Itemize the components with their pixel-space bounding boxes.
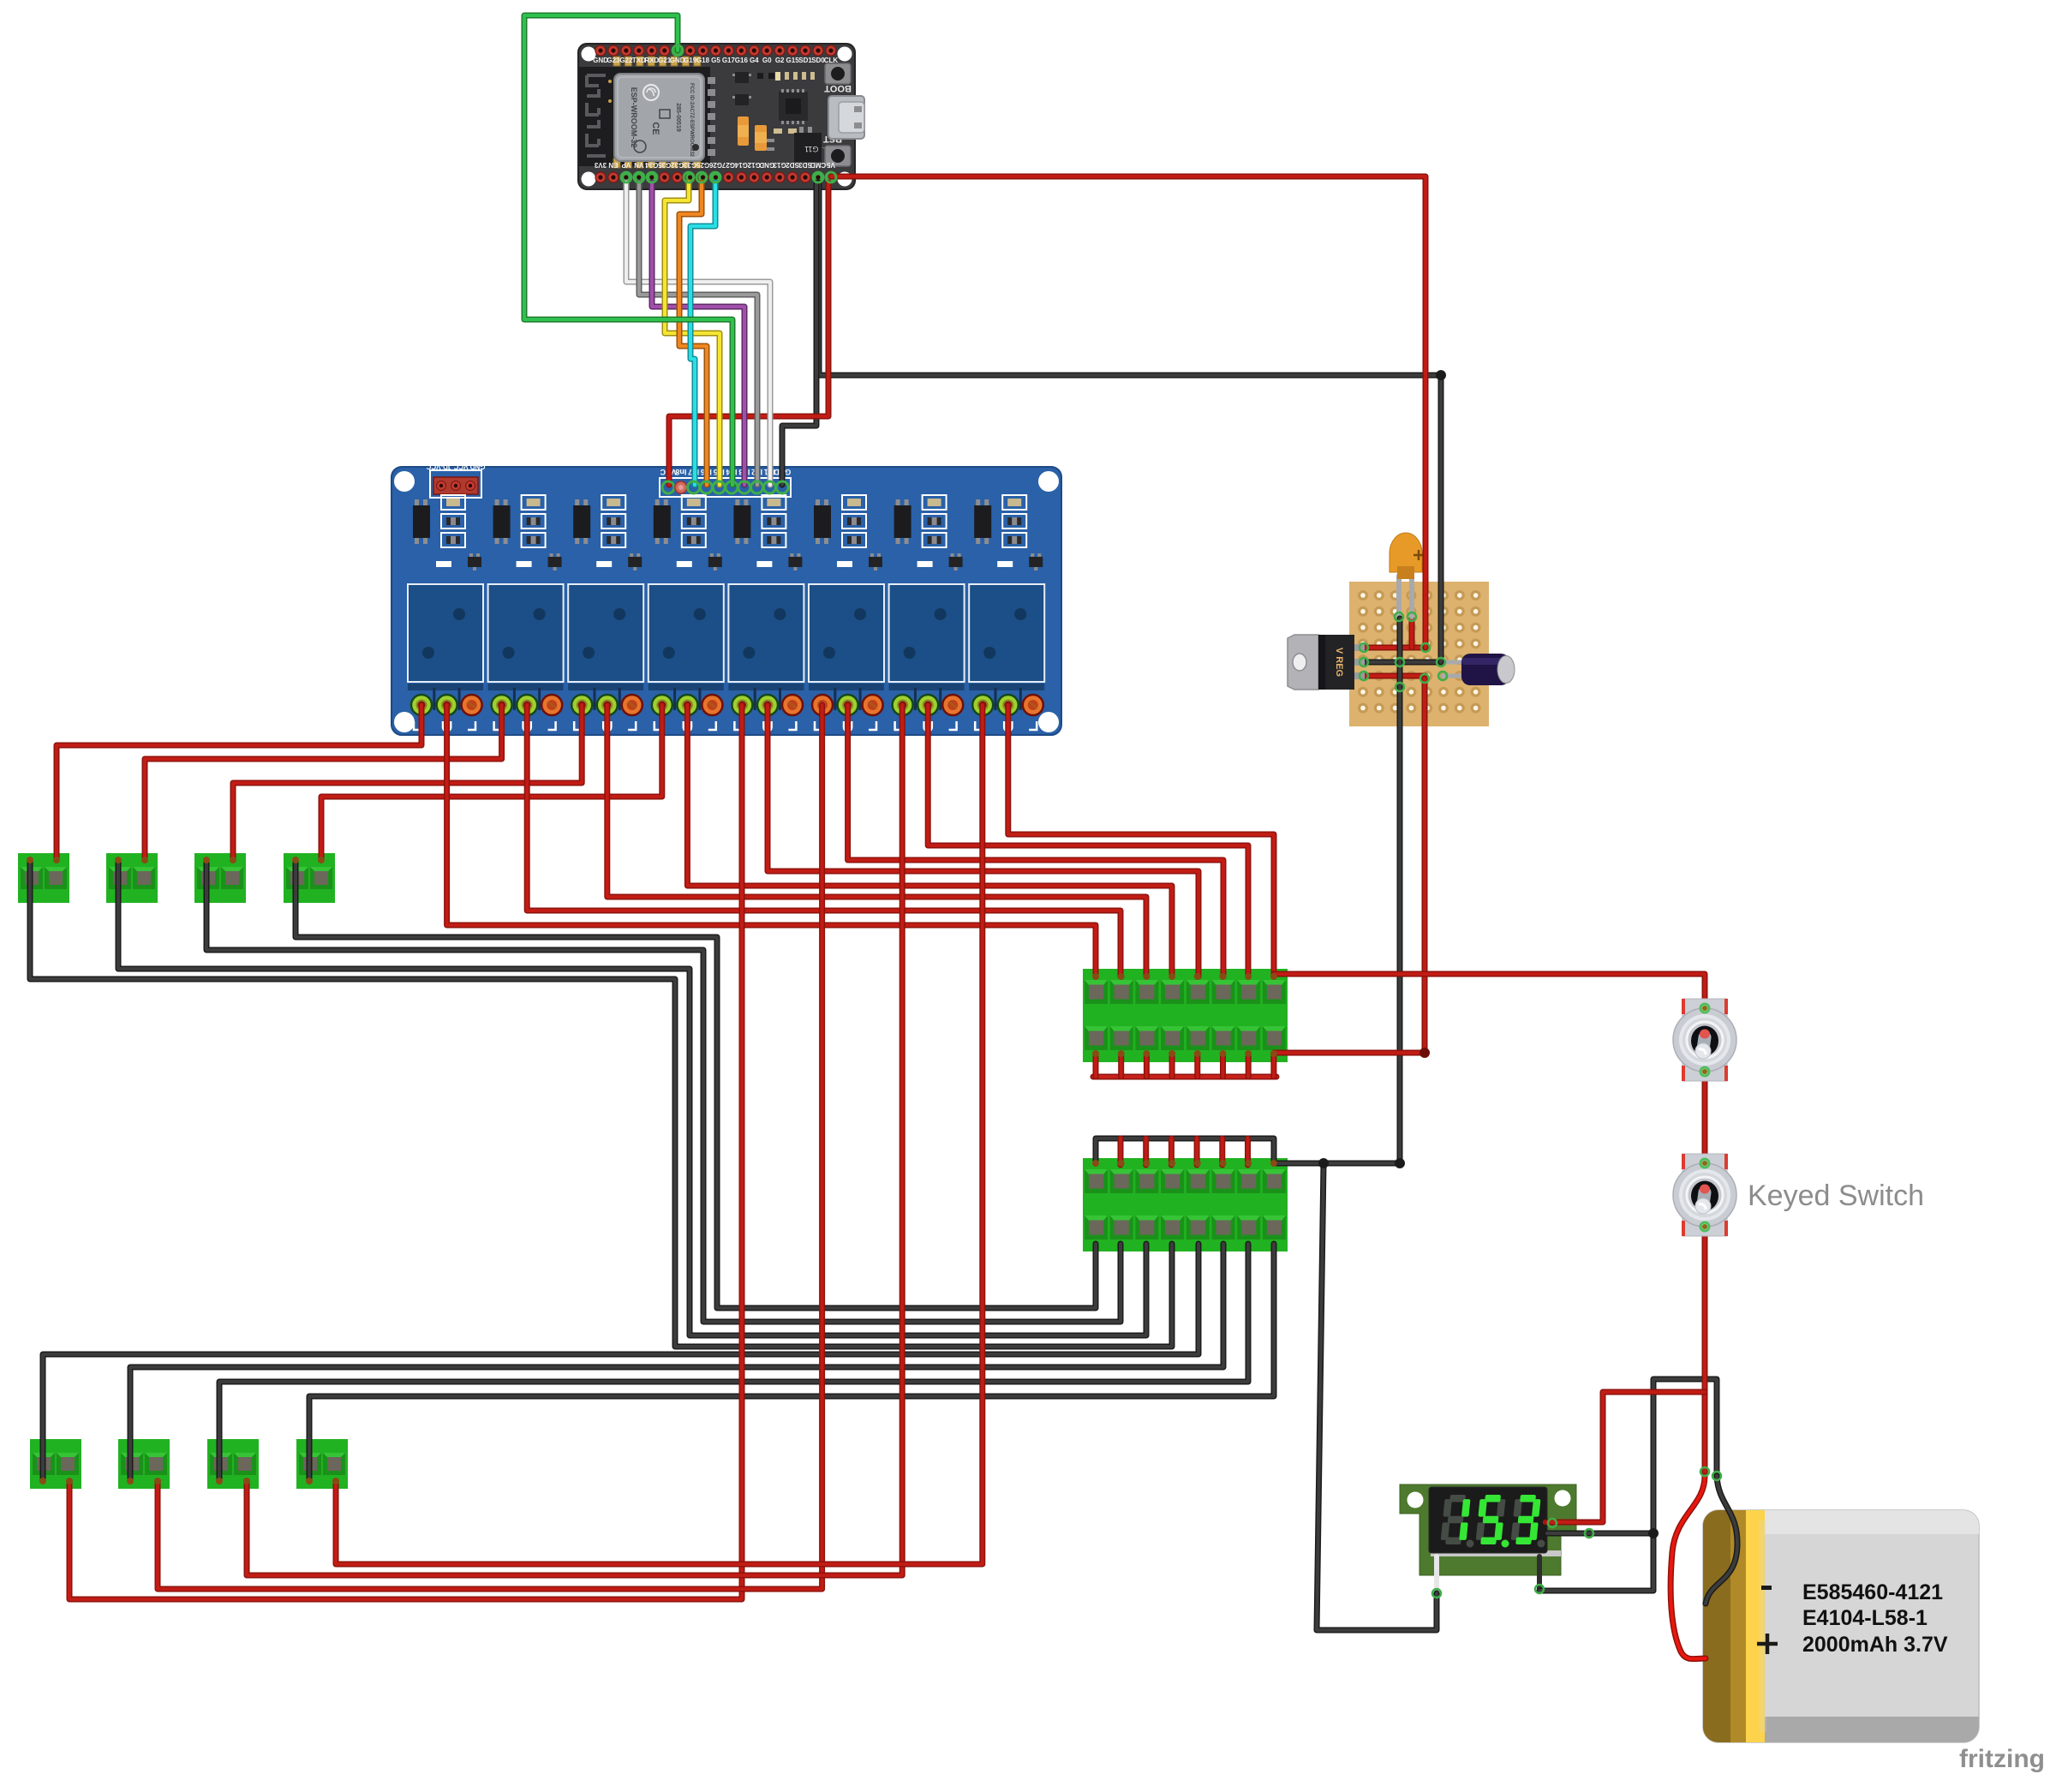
svg-text:G34: G34 xyxy=(645,161,659,169)
svg-text:G19: G19 xyxy=(684,57,697,64)
screw terminal J3 xyxy=(194,853,246,903)
svg-text:2000mAh 3.7V: 2000mAh 3.7V xyxy=(1802,1633,1948,1657)
svg-text:G25: G25 xyxy=(696,161,709,169)
wire relay K8 NO to TB1 pin8 xyxy=(1008,705,1274,977)
svg-text:CMD: CMD xyxy=(810,161,826,169)
capacitor C1 positive stub xyxy=(1409,618,1415,648)
screw terminal J8 xyxy=(296,1439,348,1489)
micro-USB connector xyxy=(828,96,864,139)
relay terminal screws xyxy=(411,695,1043,715)
svg-text:V5: V5 xyxy=(826,161,834,169)
screw terminal J2 xyxy=(106,853,158,903)
wire TB2 top stub 4 xyxy=(1168,1138,1174,1165)
perfboard connection nodes xyxy=(1360,612,1447,691)
junction node battery black tee xyxy=(1648,1528,1659,1538)
wire ESP32 5V to relay VCC xyxy=(669,182,828,485)
wire ESP32 VN to relay IN2 (gray) xyxy=(639,182,757,485)
wire ESP32 G25 to relay IN6 (orange) xyxy=(679,182,707,485)
relay blocks xyxy=(408,584,1044,682)
svg-text:V REG: V REG xyxy=(1334,648,1344,677)
svg-text:EN: EN xyxy=(608,161,618,169)
wire TB2 top stub 6 xyxy=(1219,1138,1225,1165)
svg-text:G5: G5 xyxy=(711,57,720,64)
wire TB1 bottom stub 7 xyxy=(1246,1055,1252,1077)
junction node TB2 GND net xyxy=(1395,1158,1405,1168)
wire relay K2 COM to J2 xyxy=(145,705,502,860)
capacitor C1 (tantalum) body xyxy=(1390,533,1424,579)
ESP32 bottom pin labels xyxy=(594,161,834,169)
wire TB2 top stub 5 xyxy=(1194,1138,1200,1165)
wire TB1 bottom stub 4 xyxy=(1169,1055,1175,1077)
IN1-IN8 input header xyxy=(660,468,791,497)
wire J3 black to TB2 pin2 xyxy=(206,860,1121,1322)
svg-text:E585460-4121: E585460-4121 xyxy=(1802,1580,1943,1604)
ESP32 DevKit board U1 xyxy=(578,44,855,189)
keyed switch S1 xyxy=(1673,999,1736,1081)
wire TB2 top stub 3 xyxy=(1143,1138,1149,1165)
svg-text:G32: G32 xyxy=(671,161,684,169)
voltmeter 7-segment display xyxy=(1429,1487,1547,1553)
wire TB1 bottom bus xyxy=(1093,1074,1276,1080)
BOOT button xyxy=(824,63,852,93)
wire J4 black to TB2 pin1 xyxy=(296,860,1096,1308)
wire relay K4 NO to TB1 pin4 xyxy=(687,705,1172,977)
terminal block TB2 xyxy=(1083,1158,1288,1251)
svg-text:G14: G14 xyxy=(734,161,748,169)
svg-text:SD1: SD1 xyxy=(798,57,812,64)
ESP-WROOM-32 module xyxy=(579,57,715,168)
svg-text:SD2: SD2 xyxy=(786,161,799,169)
svg-text:G35: G35 xyxy=(658,161,672,169)
wire voltmeter black to battery junction xyxy=(1547,1531,1653,1537)
wire relay K7 COM to J7 xyxy=(247,705,902,1575)
voltmeter lead (black) xyxy=(1537,1556,1542,1591)
screw terminal J5 xyxy=(30,1439,81,1489)
wire relay K5 COM to J5 xyxy=(69,705,742,1599)
wire ESP32 G34 to relay IN3 (purple) xyxy=(652,182,744,485)
svg-text:BOOT: BOOT xyxy=(824,83,852,93)
wire relay K1 NO to TB1 pin1 xyxy=(447,705,1096,977)
wire relay K6 NO to TB1 pin6 xyxy=(848,705,1223,977)
wire voltmeter bottom lead to junction xyxy=(1539,1379,1717,1591)
wire relay K7 NO to TB1 pin7 xyxy=(928,705,1248,977)
wire GND to voltmeter minus xyxy=(1317,1163,1437,1630)
wire J7 black to TB2 pin7 xyxy=(219,1244,1248,1479)
svg-text:VN: VN xyxy=(634,161,643,169)
screw terminal J6 xyxy=(118,1439,170,1489)
svg-text:G12: G12 xyxy=(747,161,761,169)
svg-text:GND: GND xyxy=(759,161,774,169)
optocoupler and driver groups xyxy=(413,495,1043,570)
battery BT1 LiPo xyxy=(1703,1510,1979,1742)
connection nodes near voltmeter and battery xyxy=(1432,1467,1721,1598)
perfboard trace VIN xyxy=(1364,645,1425,651)
svg-text:CLK: CLK xyxy=(824,57,839,64)
wire battery plus curve xyxy=(1670,1476,1706,1659)
wire J1 black to TB2 pin4 xyxy=(30,860,1172,1347)
wire relay K8 COM to J8 xyxy=(336,705,983,1564)
svg-text:ESP-WROOM-32: ESP-WROOM-32 xyxy=(630,87,638,148)
svg-text:G22: G22 xyxy=(619,57,633,64)
wire relay K2 NO to TB1 pin2 xyxy=(527,705,1121,977)
wire ESP32 GND top to relay IN4 (green) xyxy=(524,15,732,485)
relay terminal silkscreen marks xyxy=(414,721,1037,732)
wire TB2 top stub 2 xyxy=(1118,1138,1124,1165)
svg-text:285-00519: 285-00519 xyxy=(675,103,681,132)
voltmeter module M1 xyxy=(1400,1484,1576,1575)
wire relay K4 COM to J4 xyxy=(321,705,662,860)
wire TB2 top stub 7 xyxy=(1245,1138,1251,1165)
JD-VCC jumper header xyxy=(426,463,485,498)
perfboard trace GND xyxy=(1364,660,1441,666)
ESP32 onboard components xyxy=(732,72,828,162)
wire J6 black to TB2 pin6 xyxy=(130,1244,1223,1479)
wire relay K6 COM to J6 xyxy=(158,705,822,1589)
wire ESP32 G33 to relay IN5 (yellow) xyxy=(665,182,720,485)
wire TB1 pin8 to keyed switch S1 xyxy=(1274,974,1705,1473)
wire relay K3 COM to J3 xyxy=(233,705,582,860)
ESP32 top pin labels xyxy=(593,57,838,64)
svg-text:G0: G0 xyxy=(762,57,772,64)
svg-text:G27: G27 xyxy=(721,161,735,169)
junction node voltmeter GND branch xyxy=(1318,1158,1329,1168)
keyed switch S2 xyxy=(1673,1154,1736,1236)
wire TB1 bottom stub 8 xyxy=(1270,1055,1276,1077)
wire TB1 bottom stub 2 xyxy=(1118,1055,1124,1077)
wire ESP32 VP to relay IN1 (white) xyxy=(626,182,770,485)
wire ESP32 GND to perfboard GND xyxy=(819,182,1441,662)
svg-text:VP: VP xyxy=(621,161,631,169)
ESP32 pin header top row xyxy=(595,45,836,56)
svg-text:Keyed Switch: Keyed Switch xyxy=(1748,1180,1924,1212)
capacitor C2 (electrolytic) leads xyxy=(1443,662,1465,676)
wire TB2 top bus xyxy=(1096,1138,1274,1162)
svg-text:G2: G2 xyxy=(775,57,785,64)
svg-text:G16: G16 xyxy=(735,57,749,64)
wire TB1 bottom stub 1 xyxy=(1093,1055,1099,1077)
svg-text:G23: G23 xyxy=(607,57,620,64)
relay module board K1-K8 xyxy=(391,467,1061,735)
wire TB1 pin8 to regulator VOUT xyxy=(1274,678,1425,1053)
ESP32 pin header bottom row xyxy=(595,172,836,182)
wire J2 black to TB2 pin3 xyxy=(118,860,1146,1335)
screw terminal J4 xyxy=(284,853,335,903)
RST button xyxy=(823,134,851,166)
relay header pins xyxy=(662,481,788,493)
relay output terminal strips xyxy=(408,684,1044,710)
voltmeter red pin stub xyxy=(1545,1520,1554,1525)
wire relay K1 COM to J1 xyxy=(57,705,421,860)
svg-text:GND VCC JD-VCC: GND VCC JD-VCC xyxy=(426,463,485,470)
svg-text:G18: G18 xyxy=(696,57,710,64)
svg-text:fritzing: fritzing xyxy=(1959,1745,2045,1773)
voltage regulator U2 (V REG TO-220) xyxy=(1288,635,1365,690)
junction node perfboard GND xyxy=(1436,370,1446,380)
voltmeter sense lead (white) xyxy=(1434,1556,1439,1595)
perfboard PCB1 xyxy=(1349,582,1489,726)
terminal wire end dots xyxy=(27,857,1277,1484)
svg-text:SD3: SD3 xyxy=(798,161,812,169)
wire relay K5 NO to TB1 pin5 xyxy=(768,705,1198,977)
wire relay K3 NO to TB1 pin3 xyxy=(607,705,1146,977)
wire J8 black to TB2 pin8 xyxy=(309,1244,1274,1479)
svg-text:RXD: RXD xyxy=(644,57,659,64)
wire ESP32 GND to relay GND xyxy=(782,182,816,485)
ESP32 connected pin rings xyxy=(621,45,836,182)
svg-text:G4: G4 xyxy=(750,57,759,64)
svg-text:G26: G26 xyxy=(708,161,722,169)
capacitor C2 (electrolytic) body xyxy=(1461,654,1515,685)
wire ESP32 G26 to relay IN7 (cyan) xyxy=(690,182,715,485)
svg-text:E4104-L58-1: E4104-L58-1 xyxy=(1802,1606,1927,1630)
wire perfboard GND down to TB2 pin8 xyxy=(1274,618,1400,1163)
svg-text:G33: G33 xyxy=(683,161,696,169)
svg-text:G17: G17 xyxy=(722,57,736,64)
svg-text:In8: In8 xyxy=(675,468,686,476)
screw terminal J7 xyxy=(207,1439,259,1489)
screw terminal J1 xyxy=(18,853,69,903)
wire TB1 bottom stub 6 xyxy=(1220,1055,1226,1077)
wire TB1 bottom stub 3 xyxy=(1144,1055,1150,1077)
wire battery minus curve xyxy=(1706,1476,1737,1604)
capacitor C1 (tantalum) leads xyxy=(1399,576,1412,617)
svg-text:G15: G15 xyxy=(786,57,800,64)
svg-text:G13: G13 xyxy=(773,161,786,169)
svg-text:3V3: 3V3 xyxy=(594,161,607,169)
wire TB1 bottom stub 5 xyxy=(1194,1055,1200,1077)
terminal block TB1 xyxy=(1083,969,1288,1062)
wire J5 black to TB2 pin5 xyxy=(43,1244,1198,1479)
wire voltmeter plus to switch line xyxy=(1547,1392,1705,1522)
wire ESP32 5V to perfboard VIN xyxy=(831,176,1425,648)
svg-text:CE: CE xyxy=(650,122,660,134)
junction node TB1 bus corner xyxy=(1419,1048,1430,1058)
perfboard trace VOUT xyxy=(1364,673,1425,679)
